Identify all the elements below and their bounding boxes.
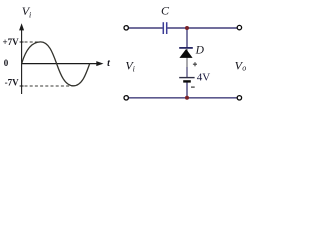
svg-text:i: i (133, 65, 135, 74)
svg-text:i: i (29, 10, 31, 19)
svg-text:0: 0 (4, 58, 9, 68)
svg-text:o: o (242, 63, 246, 72)
svg-text:-7V: -7V (5, 78, 19, 88)
svg-text:+7V: +7V (2, 37, 19, 47)
svg-text:4V: 4V (197, 72, 211, 84)
svg-text:C: C (161, 4, 170, 18)
svg-text:D: D (195, 44, 205, 56)
